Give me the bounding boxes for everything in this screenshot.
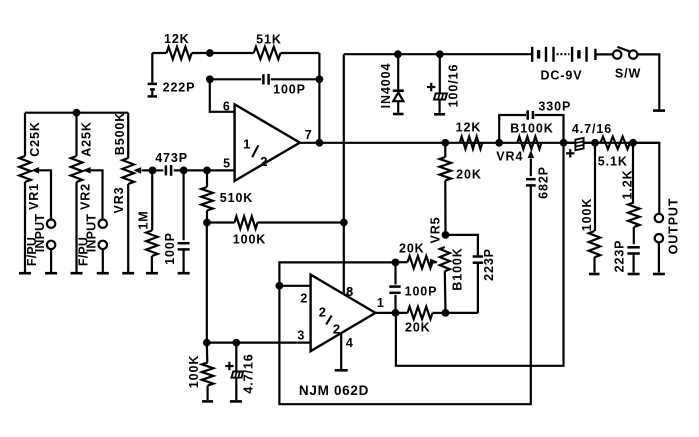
- node pin2: [276, 282, 284, 290]
- wire 51K down: [318, 53, 320, 143]
- svg-text:223P: 223P: [612, 240, 626, 273]
- resistor 20K first: [396, 256, 437, 268]
- ground pin4: [335, 369, 348, 372]
- ground 100/16: [434, 113, 445, 116]
- switch S/W: [613, 47, 637, 59]
- svg-text:2: 2: [319, 305, 326, 320]
- ground 100P: [178, 272, 190, 275]
- label 4.7/16 bias: [242, 353, 256, 393]
- svg-text:6: 6: [223, 99, 230, 113]
- wiper VR3: [133, 167, 152, 174]
- svg-text:100/16: 100/16: [446, 64, 460, 108]
- capacitor C 330P: [499, 110, 563, 143]
- ground 4.7/16 bias: [230, 400, 242, 403]
- wire pin2 to 682P: [279, 185, 530, 404]
- label VR5: [429, 216, 443, 243]
- svg-text:4.7/16: 4.7/16: [242, 353, 256, 393]
- svg-text:20K: 20K: [399, 241, 425, 255]
- wire pin5: [184, 169, 235, 171]
- label B100K: [510, 122, 553, 136]
- svg-text:S/W: S/W: [615, 67, 641, 81]
- node VR4 right: [560, 139, 568, 147]
- pin 4 label: [346, 336, 353, 350]
- svg-text:2: 2: [300, 291, 307, 305]
- input jack 1 sleeve: [47, 241, 55, 249]
- node VR5 top: [442, 231, 450, 239]
- svg-text:223P: 223P: [482, 248, 496, 281]
- node 510K bottom: [203, 219, 211, 227]
- svg-text:5: 5: [223, 156, 230, 170]
- svg-text:VR4: VR4: [496, 150, 523, 164]
- label 1/2 slash: [252, 145, 258, 157]
- svg-text:C25K: C25K: [28, 121, 42, 157]
- label 100P second: [405, 285, 438, 299]
- output jack tip: [655, 214, 663, 222]
- wire pin2 up: [279, 262, 395, 285]
- svg-text:1: 1: [243, 137, 250, 152]
- wire pin2 node: [279, 285, 310, 287]
- node 100K out top: [591, 139, 599, 147]
- node rail junction: [73, 109, 81, 117]
- wire VR5 bottom to 223P: [446, 312, 478, 314]
- svg-text:473P: 473P: [155, 151, 188, 165]
- node A: [206, 49, 214, 57]
- node VR4 left: [495, 139, 503, 147]
- node 20K1 left: [392, 259, 400, 267]
- label NJM 062D: [299, 383, 369, 398]
- ground switch: [653, 109, 665, 112]
- svg-text:1: 1: [377, 296, 384, 310]
- label 100P feedback: [273, 83, 306, 97]
- label C25K: [28, 121, 42, 157]
- label 330P: [538, 99, 571, 113]
- svg-text:1.2K: 1.2K: [621, 169, 635, 199]
- wire jack1 sleeve: [50, 249, 52, 272]
- node cap 100/16 top: [436, 50, 444, 58]
- wire V+ rail: [344, 53, 531, 55]
- svg-text:100K: 100K: [233, 233, 266, 247]
- label 2/2 b: [333, 322, 340, 337]
- wiper VR2: [83, 167, 103, 219]
- resistor 510K: [201, 170, 213, 222]
- ground jack2: [97, 272, 109, 275]
- capacitor CE 100/16: [434, 54, 447, 113]
- ground VR2: [71, 272, 83, 275]
- potentiometer VR4 body: [517, 137, 541, 149]
- label 100K out: [580, 198, 594, 231]
- label 223P out: [612, 240, 626, 273]
- label 20K second: [405, 321, 431, 335]
- potentiometer VR5 body: [440, 247, 450, 313]
- ground 1M: [146, 272, 158, 275]
- svg-text:510K: 510K: [220, 191, 253, 205]
- svg-text:100K: 100K: [187, 355, 201, 388]
- capacitor C 100P feedback: [210, 74, 320, 85]
- svg-text:12K: 12K: [164, 32, 190, 46]
- resistor 20K second: [408, 307, 446, 319]
- svg-text:330P: 330P: [538, 99, 571, 113]
- ground 100K third: [202, 400, 213, 403]
- svg-text:B100K: B100K: [510, 122, 553, 136]
- wire pin1: [375, 312, 407, 314]
- svg-text:222P: 222P: [163, 81, 196, 95]
- label 100P shunt: [163, 232, 177, 265]
- pin 4 stub: [340, 333, 342, 369]
- svg-text:2: 2: [333, 322, 340, 337]
- capacitor C 473P: [153, 165, 184, 176]
- wire jack2 sleeve: [102, 249, 104, 272]
- wiper VR1: [31, 167, 51, 219]
- diode D1 IN4004: [393, 54, 404, 112]
- pin 8 label: [346, 285, 353, 299]
- label F/PU 2: [76, 237, 90, 266]
- wire pots top rail: [25, 112, 128, 114]
- label VR4: [496, 150, 523, 164]
- label 12K: [164, 32, 190, 46]
- input jack 2 tip: [99, 220, 107, 228]
- label 1/2 a: [243, 137, 250, 152]
- pin 3 label: [297, 328, 304, 342]
- label 12K second: [456, 121, 482, 135]
- label 510K: [220, 191, 253, 205]
- capacitor CE 4.7/16 bias: [232, 343, 244, 400]
- wire 12K feed: [152, 52, 166, 54]
- resistor 1.2K: [628, 143, 640, 244]
- svg-text:NJM 062D: NJM 062D: [299, 383, 369, 398]
- label 100K bias: [233, 233, 266, 247]
- node 510K top: [203, 167, 211, 175]
- wire V+ down pin8: [343, 54, 345, 294]
- label DC-9V: [540, 69, 582, 83]
- wire out sleeve: [658, 242, 660, 272]
- node 473P right: [180, 167, 188, 175]
- label 223P tone: [482, 248, 496, 281]
- ground 223P out: [628, 273, 640, 276]
- node pin7: [316, 139, 324, 147]
- plus 4.7/16 bias: [225, 362, 233, 370]
- svg-text:100K: 100K: [580, 198, 594, 231]
- svg-text:682P: 682P: [537, 166, 551, 199]
- svg-text:VR1: VR1: [27, 183, 41, 210]
- svg-text:100P: 100P: [405, 285, 438, 299]
- label 222P: [163, 81, 196, 95]
- wire 12K-51K: [192, 52, 210, 54]
- resistor 5.1K: [601, 137, 631, 149]
- svg-text:A25K: A25K: [80, 121, 94, 157]
- label IN4004: [379, 63, 393, 109]
- label 5.1K: [598, 155, 628, 169]
- label VR2: [79, 183, 93, 210]
- ground jack1: [45, 272, 57, 275]
- label VR1: [27, 183, 41, 210]
- node VR3 wiper junction: [149, 167, 157, 175]
- svg-text:VR2: VR2: [79, 183, 93, 210]
- resistor 100K out: [589, 143, 601, 273]
- wiper VR5: [430, 259, 438, 266]
- label 20K first: [399, 241, 425, 255]
- capacitor C 222P: [148, 53, 157, 95]
- node bias: [340, 219, 348, 227]
- capacitor CE 4.7/16 out: [564, 138, 595, 150]
- wire pin3: [207, 342, 311, 344]
- node 4.7 top: [232, 339, 240, 347]
- capacitor C 100P shunt: [178, 170, 190, 273]
- label 100K third: [187, 355, 201, 388]
- label S/W: [615, 67, 641, 81]
- svg-text:100P: 100P: [273, 83, 306, 97]
- svg-text:51K: 51K: [256, 33, 282, 47]
- pin 2 label: [300, 291, 307, 305]
- pin 5 label: [223, 156, 230, 170]
- resistor 1M: [146, 170, 158, 273]
- node B: [206, 75, 214, 83]
- svg-text:20K: 20K: [456, 167, 482, 181]
- label INPUT 1: [33, 214, 47, 253]
- wire switch down: [637, 54, 659, 109]
- svg-text:5.1K: 5.1K: [598, 155, 628, 169]
- label 1/2 b: [260, 154, 267, 169]
- ground 222P: [148, 95, 157, 98]
- resistor 100K third: [202, 343, 214, 400]
- wire pin1 feedback: [396, 143, 564, 366]
- wiper VR4: [528, 150, 535, 176]
- label 1M: [137, 210, 151, 229]
- plus 4.7/16 out: [566, 149, 574, 157]
- label 20K vertical: [456, 167, 482, 181]
- label 1.2K: [621, 169, 635, 199]
- label B100K VR5: [451, 247, 465, 290]
- node diode top: [394, 50, 402, 58]
- potentiometer VR3 B500K body: [122, 113, 134, 274]
- wire battery-switch: [595, 53, 613, 55]
- ground VR3: [122, 272, 134, 275]
- svg-text:8: 8: [346, 285, 353, 299]
- svg-text:VR5: VR5: [429, 216, 443, 243]
- label 682P: [537, 166, 551, 199]
- node C: [316, 75, 324, 83]
- label 51K: [256, 33, 282, 47]
- svg-text:4.7/16: 4.7/16: [572, 122, 612, 136]
- label INPUT 2: [84, 214, 98, 253]
- wire 510K down: [206, 223, 208, 343]
- input jack 1 tip: [47, 220, 55, 228]
- label F/PU 1: [25, 237, 39, 266]
- pin 8b label: [346, 285, 353, 299]
- pin 6 label: [223, 99, 230, 113]
- op-amp U2 2/2: [311, 275, 376, 352]
- svg-text:VR3: VR3: [112, 186, 126, 213]
- input jack 2 sleeve: [99, 241, 107, 249]
- wire out corner: [633, 143, 659, 214]
- svg-text:3: 3: [297, 328, 304, 342]
- label B500K: [113, 112, 127, 155]
- label VR3: [112, 186, 126, 213]
- pin 7 label: [305, 128, 312, 142]
- label OUTPUT: [666, 198, 680, 255]
- resistor 20K vertical: [440, 143, 452, 235]
- pin 1 label: [377, 296, 384, 310]
- svg-text:OUTPUT: OUTPUT: [666, 198, 680, 255]
- node 100K3 top: [203, 339, 211, 347]
- label 4.7/16 out: [572, 122, 612, 136]
- node 20K2 right: [442, 309, 450, 317]
- svg-text:IN4004: IN4004: [379, 63, 393, 109]
- svg-text:20K: 20K: [405, 321, 431, 335]
- node 20K top: [441, 139, 449, 147]
- capacitor C 223P out: [627, 247, 639, 272]
- svg-text:1M: 1M: [137, 210, 151, 229]
- output jack sleeve: [655, 234, 663, 242]
- label A25K: [80, 121, 94, 157]
- svg-text:INPUT: INPUT: [84, 214, 98, 253]
- ground VR1: [19, 272, 31, 275]
- op-amp U1 1/2: [235, 104, 300, 181]
- resistor 51K: [210, 47, 320, 59]
- capacitor C 100P second: [389, 262, 400, 313]
- ground output jack: [653, 273, 665, 276]
- svg-text:2: 2: [260, 154, 267, 169]
- label 2/2 a: [319, 305, 326, 320]
- svg-text:4: 4: [346, 336, 353, 350]
- label 473P: [155, 151, 188, 165]
- svg-text:B500K: B500K: [113, 112, 127, 155]
- capacitor C 223P tone: [446, 235, 484, 313]
- plus 100/16: [427, 83, 435, 91]
- node 1.2K top: [629, 139, 637, 147]
- label 100/16: [446, 64, 460, 108]
- ground 100K out: [589, 273, 600, 276]
- potentiometer VR2 A25K body: [71, 113, 83, 274]
- svg-text:DC-9V: DC-9V: [540, 69, 582, 83]
- potentiometer VR1 C25K body: [19, 113, 31, 274]
- resistor 12K: [167, 47, 192, 59]
- node pin1: [392, 309, 400, 317]
- wire pin7 line: [300, 142, 660, 144]
- resistor 12K second: [460, 137, 483, 149]
- svg-text:12K: 12K: [456, 121, 482, 135]
- ground diode: [393, 113, 404, 116]
- capacitor C 682P: [526, 179, 536, 185]
- svg-text:INPUT: INPUT: [33, 214, 47, 253]
- wire pin6: [210, 79, 235, 112]
- resistor 100K bias: [207, 216, 344, 228]
- svg-text:100P: 100P: [163, 232, 177, 265]
- svg-text:7: 7: [305, 128, 312, 142]
- svg-text:B100K: B100K: [451, 247, 465, 290]
- battery BT1 DC-9V: [532, 47, 595, 62]
- label 2/2 slash: [326, 316, 331, 325]
